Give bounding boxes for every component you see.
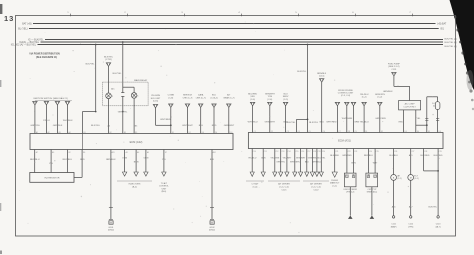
svg-text:C9: C9 — [355, 131, 357, 133]
svg-text:(B-2): (B-2) — [132, 187, 137, 189]
svg-text:A9: A9 — [52, 151, 54, 154]
svg-text:BAT (+B): BAT (+B) — [22, 22, 32, 25]
svg-text:C19: C19 — [317, 151, 320, 153]
svg-text:BRN/BLK: BRN/BLK — [317, 73, 327, 75]
svg-text:C27: C27 — [411, 151, 414, 153]
svg-text:WHT/BLU: WHT/BLU — [312, 162, 322, 164]
svg-text:GRN/RED: GRN/RED — [342, 155, 352, 157]
svg-text:(C-6): (C-6) — [267, 99, 272, 101]
svg-text:(MAP): (MAP) — [391, 226, 397, 229]
svg-text:C17: C17 — [307, 151, 310, 153]
svg-text:C3: C3 — [287, 131, 289, 133]
svg-text:A5: A5 — [147, 151, 149, 154]
svg-text:BLK/RED: BLK/RED — [434, 155, 443, 157]
svg-text:ORN: ORN — [122, 158, 127, 160]
svg-text:A/T DRIVER: A/T DRIVER — [278, 183, 290, 186]
svg-text:RED: RED — [399, 122, 404, 124]
svg-text:C/T A/T: C/T A/T — [251, 183, 259, 186]
svg-text:BLU/BLK: BLU/BLK — [389, 155, 398, 157]
svg-text:D6: D6 — [202, 132, 204, 134]
svg-text:DATA: DATA — [198, 94, 204, 97]
svg-text:D5: D5 — [428, 131, 430, 133]
svg-text:VIA POWER DISTRIBUTION: VIA POWER DISTRIBUTION — [29, 53, 60, 56]
svg-text:TO A/T: TO A/T — [161, 182, 168, 185]
svg-text:BLU: BLU — [283, 122, 288, 124]
svg-text:BLU/YEL: BLU/YEL — [317, 158, 326, 160]
svg-text:GRN/WHT: GRN/WHT — [296, 158, 306, 160]
svg-text:WHT/BLU: WHT/BLU — [248, 122, 258, 124]
svg-text:D1: D1 — [365, 131, 367, 133]
svg-text:D3: D3 — [405, 131, 407, 133]
svg-text:(SEE DIAGRAM 11): (SEE DIAGRAM 11) — [36, 56, 57, 59]
svg-text:M: M — [410, 177, 412, 179]
svg-text:(C-5, C-6): (C-5, C-6) — [311, 187, 321, 189]
svg-text:C14: C14 — [287, 151, 290, 153]
svg-text:C24: C24 — [369, 151, 372, 153]
svg-text:BLK/YEL: BLK/YEL — [91, 125, 101, 127]
svg-text:(C-1): (C-1) — [397, 178, 402, 180]
svg-text:C22: C22 — [347, 151, 350, 153]
svg-text:RED/BLU: RED/BLU — [63, 159, 73, 161]
svg-text:BRN: BRN — [134, 162, 139, 164]
svg-text:ORN: ORN — [143, 158, 148, 160]
svg-text:WHT: WHT — [373, 162, 378, 164]
svg-text:A1: A1 — [126, 151, 128, 154]
svg-text:(C-5): (C-5) — [283, 99, 288, 101]
svg-text:G101: G101 — [108, 227, 114, 229]
svg-text:C13: C13 — [281, 151, 284, 153]
svg-text:GRN/BLK: GRN/BLK — [53, 125, 63, 127]
svg-text:(GND): (GND) — [209, 230, 215, 232]
svg-text:D4: D4 — [417, 131, 419, 133]
svg-text:(C-6): (C-6) — [253, 187, 258, 189]
svg-text:BLU: BLU — [320, 122, 325, 124]
svg-text:YEL/BLU: YEL/BLU — [248, 158, 257, 160]
svg-text:B2: B2 — [68, 152, 70, 154]
svg-text:D4: D4 — [215, 132, 217, 134]
svg-text:WHT/WHT: WHT/WHT — [182, 125, 193, 127]
svg-text:BLK/RED: BLK/RED — [420, 155, 429, 157]
svg-text:C7: C7 — [338, 131, 340, 133]
svg-text:INJ RESISTOR: INJ RESISTOR — [44, 178, 59, 180]
svg-text:PGM-FI: PGM-FI — [331, 180, 338, 182]
svg-text:(C-3, C-4): (C-3, C-4) — [341, 95, 351, 97]
svg-text:BLK/YEL: BLK/YEL — [428, 207, 437, 209]
svg-text:D10: D10 — [229, 132, 232, 134]
svg-text:BLK/RED: BLK/RED — [330, 155, 339, 157]
svg-text:RED/BLU: RED/BLU — [30, 159, 40, 161]
svg-text:YEL/GRN: YEL/GRN — [270, 158, 279, 160]
svg-text:(C731): (C731) — [105, 59, 112, 61]
svg-text:C21: C21 — [335, 151, 338, 153]
svg-text:YEL/BLU: YEL/BLU — [360, 122, 369, 124]
svg-text:D7: D7 — [165, 152, 167, 154]
svg-text:C25: C25 — [376, 151, 379, 153]
svg-text:C122: C122 — [314, 190, 320, 192]
svg-text:CONTROL: CONTROL — [159, 186, 170, 188]
svg-text:YEL/WHT: YEL/WHT — [282, 158, 292, 160]
svg-text:BLK/YEL (C): BLK/YEL (C) — [445, 46, 458, 48]
svg-text:D1: D1 — [172, 132, 174, 134]
svg-text:IG1, IG2 (A) — BLK/YEL: IG1, IG2 (A) — BLK/YEL — [11, 43, 37, 46]
svg-text:B5: B5 — [135, 132, 137, 134]
svg-text:B9: B9 — [124, 132, 126, 134]
svg-text:WHT/RED: WHT/RED — [326, 122, 337, 124]
svg-text:RED/BLU: RED/BLU — [364, 155, 374, 157]
svg-text:A23: A23 — [111, 151, 114, 154]
svg-text:(C16): (C16) — [153, 100, 159, 102]
svg-text:BLK/YEL: BLK/YEL — [309, 122, 319, 124]
svg-text:ECM (A31): ECM (A31) — [338, 138, 351, 142]
svg-text:A7: A7 — [36, 151, 38, 154]
svg-text:COMB: COMB — [168, 95, 175, 97]
svg-text:BLU: BLU — [305, 162, 309, 164]
svg-text:INJECTORS: INJECTORS — [129, 184, 141, 186]
svg-text:GRN: GRN — [261, 158, 266, 160]
svg-text:UNIT: UNIT — [162, 188, 167, 190]
svg-text:C6: C6 — [323, 131, 325, 133]
svg-text:C8: C8 — [348, 131, 350, 133]
svg-text:LINK (C-7): LINK (C-7) — [196, 97, 206, 99]
svg-text:(C-5, C-6): (C-5, C-6) — [279, 187, 289, 189]
svg-text:BLU: BLU — [199, 125, 204, 127]
svg-text:B6: B6 — [83, 152, 85, 154]
svg-text:(+B) BAT: (+B) BAT — [437, 22, 447, 25]
svg-text:IGNITION SWITCH (SEE DIAG 21): IGNITION SWITCH (SEE DIAG 21) — [33, 97, 68, 100]
svg-text:BLK/YEL: BLK/YEL — [113, 73, 123, 75]
svg-text:BLK/YEL: BLK/YEL — [297, 71, 307, 73]
svg-text:SERVICE: SERVICE — [183, 95, 193, 97]
svg-text:D2: D2 — [381, 131, 383, 133]
svg-text:(C-2): (C-2) — [377, 97, 382, 99]
svg-text:BLK/YEL: BLK/YEL — [287, 122, 297, 124]
svg-text:(C-8): (C-8) — [168, 97, 173, 99]
svg-text:GRN/WHT: GRN/WHT — [265, 122, 276, 124]
svg-text:MAIN RELAY: MAIN RELAY — [134, 79, 148, 82]
svg-text:(C-1): (C-1) — [332, 185, 337, 187]
svg-text:GRN/WHT: GRN/WHT — [224, 125, 235, 127]
svg-text:C20: C20 — [322, 151, 325, 153]
svg-text:GRN/YEL: GRN/YEL — [276, 162, 286, 164]
svg-text:(ALT): (ALT) — [436, 226, 441, 229]
svg-text:CLUTCH RLY: CLUTCH RLY — [403, 106, 416, 108]
svg-text:C2: C2 — [271, 131, 273, 133]
svg-text:C11: C11 — [264, 151, 267, 153]
svg-text:BLK/YEL: BLK/YEL — [86, 64, 96, 66]
svg-text:BLK/YEL (A): BLK/YEL (A) — [445, 37, 458, 40]
svg-text:RED: RED — [212, 125, 217, 127]
svg-text:C131: C131 — [391, 69, 397, 71]
svg-text:GRN/ORN: GRN/ORN — [375, 118, 386, 120]
svg-text:A/C: A/C — [111, 88, 115, 91]
svg-text:(C-1): (C-1) — [414, 178, 419, 180]
svg-text:A3: A3 — [137, 151, 139, 154]
svg-text:(TPS): (TPS) — [408, 227, 414, 229]
svg-text:(C-6): (C-6) — [250, 99, 255, 101]
svg-text:13: 13 — [4, 14, 14, 23]
svg-text:BLK/YEL (B): BLK/YEL (B) — [445, 42, 458, 44]
svg-text:(C16-4): (C16-4) — [210, 97, 217, 99]
svg-text:MAIN RLY: MAIN RLY — [330, 182, 340, 185]
svg-text:D6: D6 — [439, 131, 441, 133]
svg-text:GRN/YEL: GRN/YEL — [30, 125, 40, 127]
svg-text:GRN/YEL: GRN/YEL — [118, 112, 128, 114]
svg-text:C28: C28 — [424, 151, 427, 153]
svg-text:BRN: BRN — [351, 162, 356, 164]
svg-text:C5: C5 — [309, 131, 311, 133]
svg-text:B2: B2 — [110, 132, 112, 134]
svg-text:RED: RED — [80, 159, 85, 161]
svg-text:A/C COMP: A/C COMP — [405, 103, 416, 106]
svg-text:(GND): (GND) — [108, 230, 114, 232]
svg-text:C23: C23 — [354, 151, 357, 153]
svg-text:WHT/RED: WHT/RED — [160, 119, 171, 121]
svg-text:C10: C10 — [253, 151, 256, 153]
svg-text:GRN/BLK: GRN/BLK — [383, 91, 393, 93]
svg-text:BL (YEL): BL (YEL) — [18, 28, 27, 30]
svg-text:C18: C18 — [313, 151, 316, 153]
svg-text:B1: B1 — [83, 132, 85, 134]
svg-text:C29: C29 — [439, 151, 442, 153]
svg-text:C12: C12 — [275, 151, 278, 153]
svg-text:D2: D2 — [189, 132, 191, 134]
svg-text:C121: C121 — [282, 190, 288, 192]
svg-text:A24: A24 — [213, 151, 216, 154]
svg-text:ECM (A32): ECM (A32) — [130, 140, 143, 144]
svg-text:P/BLU: P/BLU — [43, 120, 50, 122]
svg-text:C1: C1 — [254, 131, 256, 133]
svg-text:A3: A3 — [58, 131, 60, 134]
svg-text:GEAR (C-7): GEAR (C-7) — [223, 96, 235, 99]
svg-text:C15: C15 — [295, 151, 298, 153]
svg-text:C16: C16 — [301, 151, 304, 153]
svg-text:BRN/BLK: BRN/BLK — [106, 159, 116, 161]
svg-text:BLK: BLK — [210, 159, 215, 161]
svg-text:A4: A4 — [69, 131, 71, 134]
svg-text:(C-2): (C-2) — [362, 97, 367, 99]
svg-text:GRN/RED: GRN/RED — [308, 158, 318, 160]
svg-text:C26: C26 — [394, 151, 397, 153]
svg-text:WHT/GRN: WHT/GRN — [290, 162, 300, 164]
svg-text:ELD: ELD — [212, 95, 217, 97]
svg-text:CHK (C-7): CHK (C-7) — [183, 97, 193, 99]
svg-text:WHT/GRN: WHT/GRN — [342, 118, 353, 120]
svg-text:A1: A1 — [36, 131, 38, 134]
svg-text:C4: C4 — [298, 131, 300, 133]
svg-text:A/T DRIVER: A/T DRIVER — [310, 183, 322, 186]
svg-text:WHT/BLK: WHT/BLK — [63, 120, 73, 122]
svg-text:A2: A2 — [47, 131, 49, 134]
svg-text:G102: G102 — [209, 227, 215, 229]
svg-text:(C10): (C10) — [319, 76, 325, 78]
